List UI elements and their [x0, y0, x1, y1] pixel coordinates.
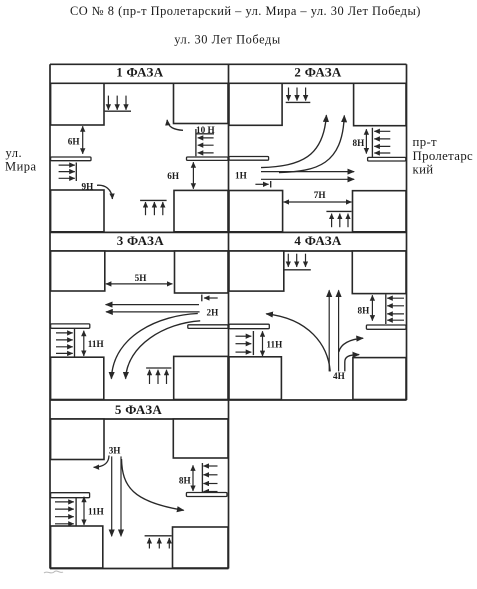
- phase4 pedestrian span 8N (double arrow): [371, 295, 373, 321]
- phase3 left-turn curve outer: [111, 314, 197, 379]
- svg-text:ул.: ул.: [6, 146, 23, 160]
- svg-text:3Н: 3Н: [109, 446, 121, 456]
- phase1 bottom crosswalk baseline: [140, 199, 167, 201]
- svg-text:11Н: 11Н: [266, 340, 282, 350]
- row2 bottom border: [50, 399, 407, 401]
- phase1 right pedestrian line: [195, 129, 197, 156]
- phase3 bottom-left corner block: [51, 357, 104, 399]
- phase4 bottom-left corner block: [229, 357, 281, 400]
- phase1 turn arrow 10N: [167, 120, 183, 131]
- phase4 top crosswalk arrows (3 down): [287, 254, 289, 267]
- phase5 right sidewalk bar: [186, 493, 227, 497]
- svg-text:8Н: 8Н: [353, 138, 365, 148]
- phase3 bottom-right corner block: [174, 356, 228, 399]
- phase3 bottom crosswalk baseline: [146, 367, 171, 369]
- phase4 left pedestrian line: [252, 331, 254, 355]
- phase3 start tick arrow 2N: [204, 297, 218, 299]
- phase2 through arrow upper: [261, 171, 354, 173]
- phase3 crossing span 5N (double arrow): [106, 283, 173, 285]
- phase2 top crosswalk baseline: [286, 101, 311, 103]
- phase2 bottom-left corner block: [229, 191, 283, 232]
- phase5 through arrow left (down): [111, 456, 113, 536]
- phase2 top-right corner block: [354, 83, 406, 125]
- phase1 left pedestrian line: [75, 163, 77, 182]
- phase4 right-turn branch upper: [339, 338, 363, 352]
- phase1 left sidewalk bar: [51, 157, 91, 161]
- svg-text:6Н: 6Н: [167, 171, 179, 181]
- svg-text:1Н: 1Н: [235, 171, 247, 181]
- phase2 right sidewalk bar: [368, 157, 406, 161]
- svg-text:3 ФАЗА: 3 ФАЗА: [117, 233, 165, 248]
- phase5 left sidewalk bar: [51, 493, 90, 498]
- svg-text:11Н: 11Н: [88, 339, 104, 349]
- phase5 bottom crosswalk baseline: [145, 535, 172, 537]
- phase2 left-turn curve inner: [261, 115, 326, 167]
- svg-text:7Н: 7Н: [314, 190, 326, 200]
- phase3 pedestrian span 11N (double arrow): [83, 331, 85, 356]
- svg-text:кий: кий: [413, 162, 434, 176]
- phase2 through arrow lower: [261, 178, 354, 180]
- row3 header underline: [50, 418, 229, 420]
- phase4 bottom-right corner block: [353, 358, 406, 400]
- phase3 left-turn curve inner: [126, 321, 201, 379]
- phase2 left-turn curve outer: [279, 116, 344, 173]
- svg-text:2Н: 2Н: [207, 308, 219, 318]
- phase1 top-left corner block: [51, 83, 104, 125]
- svg-text:8Н: 8Н: [358, 305, 370, 315]
- phase5 pedestrian span 8N (double arrow): [192, 465, 194, 491]
- phase2 crossing span 7N (double arrow): [284, 201, 352, 203]
- phase1 bottom-left corner block: [51, 190, 104, 232]
- phase4 through arrow left (up): [328, 290, 330, 371]
- phase5 through arrow right (down): [120, 456, 122, 536]
- svg-text:5Н: 5Н: [135, 273, 147, 283]
- svg-text:Мира: Мира: [5, 160, 37, 174]
- phase3 top-right corner block: [175, 251, 229, 293]
- svg-text:11Н: 11Н: [88, 507, 104, 517]
- phase2 top crosswalk arrows (3 down): [288, 88, 290, 101]
- phase3 top-left corner block: [51, 251, 105, 291]
- phase5 top-right corner block: [173, 419, 228, 458]
- phase5 left-turn small arrow: [94, 456, 109, 468]
- svg-text:4 ФАЗА: 4 ФАЗА: [294, 233, 342, 248]
- phase4 left-turn curve 4N: [266, 314, 330, 372]
- row1 header underline: [50, 82, 407, 84]
- table left border: [49, 64, 51, 568]
- phase2 bottom crosswalk arrows (3 up): [331, 214, 333, 228]
- phase2 left sidewalk bar: [229, 157, 269, 161]
- phase3 through arrow upper: [106, 304, 199, 306]
- phase1 bottom crosswalk arrows (3 up): [145, 202, 147, 215]
- phase1 top crosswalk arrows (3 down): [107, 96, 109, 110]
- svg-text:Пролетарс: Пролетарс: [413, 149, 474, 163]
- phase4 left sidewalk bar: [229, 324, 269, 329]
- phase5 pedestrian span 11N (double arrow): [83, 497, 85, 525]
- phase3 through arrow lower: [106, 311, 200, 313]
- phase5 right-turn curve 3N: [122, 459, 184, 510]
- phase4 right pedestrian line: [385, 294, 387, 324]
- phase5 left pedestrian line: [75, 498, 77, 526]
- phase5 bottom crosswalk arrows (3 up): [148, 538, 150, 549]
- phase1 pedestrian span 6N left (double arrow): [82, 126, 84, 154]
- phase4 top crosswalk baseline: [284, 269, 311, 271]
- phase3 left sidewalk bar: [51, 324, 90, 328]
- svg-text:пр-т: пр-т: [413, 135, 438, 149]
- table bottom border: [50, 568, 229, 570]
- phase1 right pedestrian flow arrows (3 left): [198, 137, 214, 139]
- phase5 top-left corner block: [51, 419, 104, 460]
- phase2 pedestrian span 8N (double arrow): [365, 129, 367, 153]
- phase2 start tick mark: [270, 181, 272, 188]
- svg-text:4Н: 4Н: [333, 371, 345, 381]
- phase1 pedestrian span 6N right (double arrow): [192, 162, 194, 189]
- svg-text:СО № 8 (пр-т Пролетарский – ул: СО № 8 (пр-т Пролетарский – ул. Мира – у…: [70, 4, 421, 18]
- svg-text:2 ФАЗА: 2 ФАЗА: [294, 65, 342, 80]
- svg-text:ул. 30 Лет Победы: ул. 30 Лет Победы: [174, 33, 281, 47]
- phase4 top-left corner block: [229, 251, 284, 291]
- phase3 bottom crosswalk arrows (3 up): [149, 370, 151, 384]
- phase4 right-turn branch lower: [345, 355, 359, 372]
- phase4 right pedestrian flow arrows (4 left): [387, 297, 404, 299]
- table right border: [406, 64, 408, 400]
- svg-text:1 ФАЗА: 1 ФАЗА: [116, 65, 164, 80]
- phase2 start tick arrow 1N: [255, 183, 268, 185]
- phase1 right-turn arrow 9N: [97, 185, 112, 199]
- phase5 bottom-left corner block: [51, 526, 103, 568]
- phase5 right pedestrian flow arrows (4 left): [203, 465, 217, 467]
- phase1 bottom-right corner block: [174, 190, 228, 231]
- phase3 left pedestrian flow arrows (4 right): [56, 332, 73, 334]
- phase4 right sidewalk bar: [366, 325, 406, 329]
- table center divider: [228, 64, 230, 568]
- svg-text:9Н: 9Н: [82, 182, 94, 192]
- phase5 left pedestrian flow arrows (4 right): [55, 501, 74, 503]
- svg-text:8Н: 8Н: [179, 476, 191, 486]
- phase3 left pedestrian line: [74, 329, 76, 357]
- phase5 bottom-right corner block: [173, 527, 229, 568]
- phase4 pedestrian span 11N (double arrow): [262, 331, 264, 356]
- phase1 left pedestrian flow arrows (3 right): [59, 164, 75, 166]
- phase4 top-right corner block: [352, 251, 406, 294]
- table outer top border: [50, 63, 407, 65]
- faint scan artifact: [44, 571, 63, 573]
- phase2 right pedestrian flow arrows (4 left): [374, 130, 390, 132]
- phase2 right pedestrian line: [371, 128, 373, 157]
- phase1 top-right corner block: [174, 83, 229, 123]
- phase2 bottom crosswalk baseline: [326, 210, 351, 212]
- phase2 bottom-right corner block: [353, 191, 407, 232]
- phase4 left pedestrian flow arrows (3 right): [236, 335, 252, 337]
- phase2 top-left corner block: [229, 83, 282, 125]
- phase1 right sidewalk bar: [187, 157, 229, 160]
- phase1 top crosswalk baseline: [105, 110, 131, 112]
- phase5 right pedestrian line: [201, 463, 203, 494]
- phase4 through arrow right (up): [338, 290, 340, 371]
- row1 bottom border: [50, 231, 407, 233]
- svg-text:6Н: 6Н: [68, 136, 80, 146]
- svg-text:5 ФАЗА: 5 ФАЗА: [115, 402, 163, 417]
- row2 header underline: [50, 250, 407, 252]
- phase3 right sidewalk bar: [188, 325, 228, 329]
- phase3 start tick mark: [201, 295, 203, 302]
- phase1 label 10N underline: [196, 133, 215, 135]
